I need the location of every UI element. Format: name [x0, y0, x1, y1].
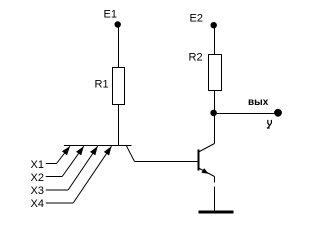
svg-text:вых: вых: [248, 97, 269, 108]
svg-text:R1: R1: [95, 79, 109, 91]
svg-text:E1: E1: [104, 9, 117, 21]
svg-text:X1: X1: [31, 159, 44, 171]
svg-text:E2: E2: [190, 13, 203, 25]
svg-text:X4: X4: [31, 198, 44, 210]
svg-text:R2: R2: [189, 52, 203, 64]
svg-text:X3: X3: [31, 185, 44, 197]
svg-text:X2: X2: [31, 172, 44, 184]
